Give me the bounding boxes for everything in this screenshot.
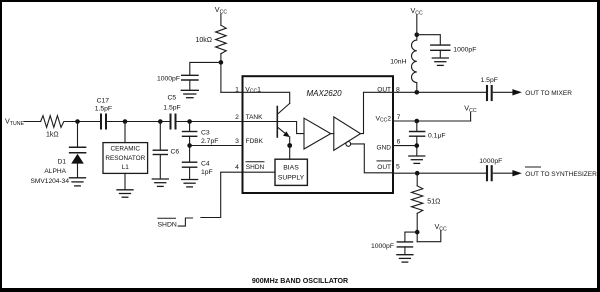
svg-text:2: 2 <box>235 114 239 121</box>
svg-text:5: 5 <box>396 164 400 171</box>
node B junction <box>123 119 128 124</box>
SHDN step glyph <box>178 218 192 226</box>
label 1.5pF output <box>481 77 498 84</box>
node C junction <box>158 119 163 124</box>
svg-text:51Ω: 51Ω <box>427 198 440 205</box>
svg-text:1000pF: 1000pF <box>479 158 502 165</box>
wire node B to C5 <box>153 121 169 123</box>
pin text SHDN with overline <box>246 164 265 171</box>
wire C5 to pin2 <box>177 121 243 123</box>
node A junction <box>75 119 80 124</box>
label 10k <box>195 37 212 44</box>
svg-text:OUT TO MIXER: OUT TO MIXER <box>525 90 572 97</box>
overline OUT synthesizer <box>526 166 541 168</box>
node E junction <box>187 143 192 148</box>
pin text OUT right <box>377 86 391 93</box>
ground below C6 <box>152 179 168 186</box>
wire C17 to node B <box>107 121 153 123</box>
wire node C down to C6 <box>159 122 161 150</box>
svg-text:1000pF: 1000pF <box>371 243 394 250</box>
svg-text:L1: L1 <box>122 164 130 171</box>
wire amp2 out to pin8 <box>361 92 393 133</box>
label OUT TO SYNTHESIZER <box>525 171 597 178</box>
svg-text:10kΩ: 10kΩ <box>195 37 212 44</box>
wire node F to bias supply <box>289 146 291 160</box>
wire node to VCC bottom <box>417 231 441 242</box>
pin text VCC1 <box>245 86 261 94</box>
wire pin5 node to 51 ohm <box>416 173 418 186</box>
collector diagonal <box>278 103 290 114</box>
wire VCC to R 10k <box>220 14 222 25</box>
label C5 1.5pF <box>163 95 180 112</box>
ground below 0.1uF <box>409 156 425 163</box>
pin number 4 <box>235 164 239 171</box>
ground below C4 <box>182 180 198 187</box>
label 51 ohm <box>427 198 440 205</box>
node pin5 junction <box>415 171 420 176</box>
arrow out to synthesizer <box>512 170 522 176</box>
ground below resonator <box>117 190 133 197</box>
svg-text:MAX2620: MAX2620 <box>307 89 343 98</box>
svg-text:1.5pF: 1.5pF <box>163 104 180 111</box>
capacitor C4 <box>183 162 197 167</box>
capacitor C6 <box>153 150 167 178</box>
svg-text:SHDN: SHDN <box>158 222 177 229</box>
ground below 1000pF pin1 <box>181 90 198 97</box>
pin text VCC2 <box>375 115 391 123</box>
label 1k <box>46 131 59 138</box>
ground below 1000pF top right <box>432 58 448 65</box>
label C17 1.5pF <box>95 98 112 113</box>
node 10k junction <box>219 60 224 65</box>
svg-text:900MHz BAND OSCILLATOR: 900MHz BAND OSCILLATOR <box>252 277 348 285</box>
base bar <box>276 107 278 138</box>
wire R1 to node A <box>68 121 100 123</box>
wire pin7 VCC2 <box>393 120 471 122</box>
node inductor top junction <box>415 32 420 37</box>
svg-text:2.7pF: 2.7pF <box>201 138 218 145</box>
wire node to 1000pF bottom <box>405 232 417 241</box>
capacitor 1000pF bottom <box>397 242 412 254</box>
node VTUNE input label <box>5 116 24 127</box>
emitter to node F <box>289 137 291 146</box>
pin number 5 <box>396 164 400 171</box>
wire C3 to node E <box>189 136 191 161</box>
inverter bubble <box>346 142 351 147</box>
svg-text:4: 4 <box>235 164 239 171</box>
label MAX2620 <box>307 89 343 98</box>
label C6 <box>171 149 180 156</box>
bias supply box <box>275 159 307 185</box>
arrow out to mixer <box>512 89 522 95</box>
label 1000pF top right <box>453 47 476 54</box>
node pin7 junction <box>415 119 420 124</box>
wire FDBK pin3 <box>190 145 243 147</box>
overline SHDN input <box>158 217 176 219</box>
svg-text:CERAMIC: CERAMIC <box>111 146 141 153</box>
node pin6 junction <box>415 143 420 148</box>
svg-text:10nH: 10nH <box>390 59 406 66</box>
svg-text:SHDN: SHDN <box>246 164 265 171</box>
label 10nH <box>390 59 406 66</box>
label 1000pF bottom <box>371 243 394 250</box>
wire VCC mid right stub <box>470 113 472 122</box>
VCC bottom right <box>435 222 448 233</box>
wire VCC1 to collector <box>243 92 290 103</box>
wire 1000pF to arrow <box>493 172 512 174</box>
svg-text:GND: GND <box>377 144 392 151</box>
pin text GND <box>377 144 392 151</box>
ground below D1 <box>70 178 86 186</box>
capacitor 1000pF pin1 <box>182 75 198 90</box>
svg-text:1.5pF: 1.5pF <box>481 77 498 84</box>
label 1000pF pin1 <box>157 75 180 82</box>
wire pin7 node to 0.1uF <box>416 121 418 131</box>
wire node B down to resonator <box>124 122 126 143</box>
varactor D1 <box>70 147 86 177</box>
pin number 1 <box>235 86 239 93</box>
svg-text:C4: C4 <box>201 160 210 167</box>
wire TANK internal <box>243 121 278 123</box>
svg-text:1pF: 1pF <box>201 169 213 176</box>
svg-text:1000pF: 1000pF <box>157 75 180 82</box>
IC box MAX2620 <box>243 76 394 193</box>
wire pin5 OUT bar <box>393 172 486 174</box>
ground below 1000pF bottom <box>397 255 413 262</box>
pin text OUT bar <box>377 164 391 171</box>
svg-text:1.5pF: 1.5pF <box>95 106 112 113</box>
svg-text:SUPPLY: SUPPLY <box>278 174 305 181</box>
ceramic resonator L1 box <box>103 143 148 174</box>
VCC top right <box>411 6 424 17</box>
wire node A down to D1 <box>77 122 79 147</box>
wire pin1 VCC1 <box>221 91 243 93</box>
wire 1.5pF to arrow <box>493 91 512 93</box>
wire VTUNE to R1 <box>24 121 41 123</box>
pin number 6 <box>397 139 401 146</box>
label 0.1uF <box>428 133 446 140</box>
VCC mid right <box>464 104 477 115</box>
wire C4 to ground <box>189 167 191 179</box>
label D1 ALPHA SMV1204-34 <box>31 158 70 185</box>
label OUT TO MIXER <box>525 90 572 97</box>
wire pin8 OUT <box>393 91 486 93</box>
svg-text:TANK: TANK <box>246 114 264 121</box>
svg-text:6: 6 <box>397 139 401 146</box>
inductor 10nH <box>411 35 416 93</box>
node 51 ohm bottom junction <box>415 230 420 235</box>
svg-text:ALPHA: ALPHA <box>44 168 66 175</box>
emitter arrow <box>283 131 290 137</box>
svg-text:OUT: OUT <box>377 164 391 171</box>
svg-text:C5: C5 <box>167 95 176 102</box>
svg-text:3: 3 <box>235 138 239 145</box>
wire SHDN to pin4 <box>201 172 243 217</box>
svg-text:SMV1204-34: SMV1204-34 <box>31 178 70 185</box>
capacitor 1.5pF output <box>487 86 492 100</box>
svg-text:C6: C6 <box>171 149 180 156</box>
svg-text:C3: C3 <box>201 130 210 137</box>
wire pin4 inside to bias <box>243 171 276 173</box>
svg-text:FDBK: FDBK <box>246 138 264 145</box>
pin number 8 <box>396 86 400 93</box>
pin text FDBK <box>246 138 264 145</box>
capacitor C3 <box>183 132 197 137</box>
wire pin6 GND stub <box>393 145 417 147</box>
pin number 7 <box>397 114 401 121</box>
amp triangle 2 <box>334 117 361 150</box>
wire node D down to C3 <box>189 122 191 132</box>
amp triangle 1 <box>304 118 331 149</box>
label 1000pF output <box>479 158 502 165</box>
wire base to amp1 input <box>277 122 304 134</box>
wire node to 1000pF <box>190 62 221 74</box>
VCC top left <box>215 5 228 16</box>
svg-text:OUT TO SYNTHESIZER: OUT TO SYNTHESIZER <box>525 171 597 178</box>
svg-text:0.1μF: 0.1μF <box>428 133 446 140</box>
wire VCC to node <box>416 15 418 35</box>
capacitor 1000pF top right <box>431 45 450 57</box>
svg-text:C17: C17 <box>97 98 110 105</box>
transistor Q internal <box>243 92 293 159</box>
SHDN input label <box>158 222 177 229</box>
svg-text:1000pF: 1000pF <box>453 47 476 54</box>
node F junction <box>287 143 292 148</box>
wire amp1 to amp2 <box>331 133 334 135</box>
pin text TANK <box>246 114 264 121</box>
capacitor 1000pF output <box>487 166 492 180</box>
emitter diagonal <box>278 127 287 134</box>
svg-text:D1: D1 <box>58 158 67 165</box>
pin number 2 <box>235 114 239 121</box>
wire 51 ohm to node <box>416 213 418 241</box>
capacitor C5 <box>171 115 176 129</box>
wire R 10k to node <box>220 54 222 93</box>
svg-text:1kΩ: 1kΩ <box>46 131 59 138</box>
resistor 51 ohm <box>412 186 423 214</box>
label C3 2.7pF <box>201 130 218 145</box>
svg-text:BIAS: BIAS <box>283 164 299 171</box>
resistor 1k <box>41 116 68 128</box>
wire bubble to pin5 <box>351 144 393 173</box>
svg-text:1: 1 <box>235 86 239 93</box>
capacitor 0.1uF <box>410 132 425 156</box>
pin number 3 <box>235 138 239 145</box>
resistor 10k <box>216 25 227 54</box>
label C4 1pF <box>201 160 213 175</box>
node pin8 junction <box>415 90 420 95</box>
wire node to 1000pF top right <box>417 35 441 45</box>
svg-text:7: 7 <box>397 114 401 121</box>
wire resonator to ground <box>124 173 126 189</box>
node D junction <box>187 119 192 124</box>
svg-text:RESONATOR: RESONATOR <box>105 155 145 162</box>
capacitor C17 <box>101 115 106 129</box>
